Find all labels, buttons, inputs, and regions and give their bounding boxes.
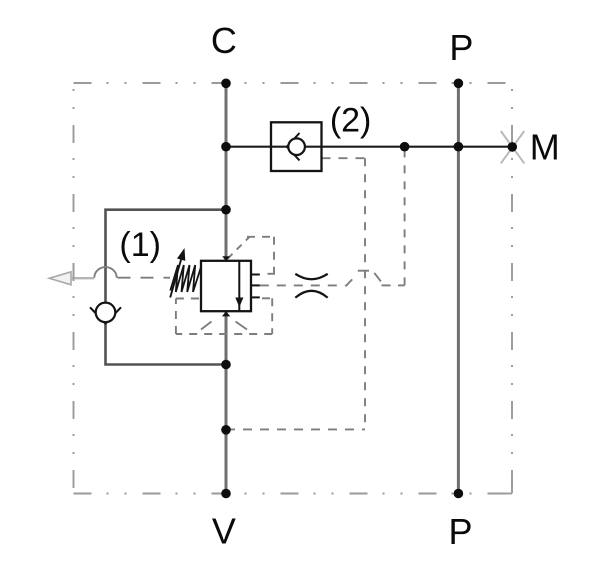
svg-text:P: P <box>449 27 473 68</box>
svg-text:M: M <box>530 126 560 167</box>
svg-text:V: V <box>212 511 236 552</box>
svg-text:P: P <box>448 511 472 552</box>
svg-text:(1): (1) <box>119 226 161 264</box>
svg-text:C: C <box>211 20 237 61</box>
svg-text:(2): (2) <box>330 102 372 140</box>
